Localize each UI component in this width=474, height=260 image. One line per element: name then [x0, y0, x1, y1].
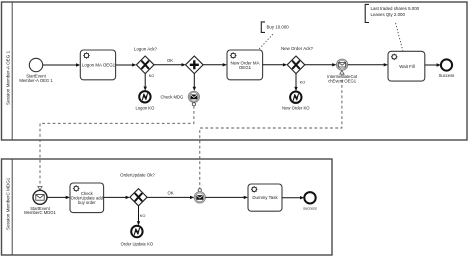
annotation Buy 10.000 [259, 22, 290, 50]
task New Order MA OEG1 [227, 50, 263, 80]
gateway XOR New Order Ack? [281, 46, 314, 74]
intermediate catch event IntermediateCatchEvent OEG1 [327, 59, 358, 83]
svg-text:OrderUpdate Ok?: OrderUpdate Ok? [120, 173, 155, 178]
svg-text:Dummy Task: Dummy Task [252, 195, 278, 200]
svg-text:KO: KO [149, 73, 155, 78]
wire sequence flow throw event to Dummy Task [205, 196, 248, 199]
svg-text:Logon MA OEG1: Logon MA OEG1 [82, 63, 116, 68]
wire sequence flow New Order task to gateway [263, 63, 288, 66]
wire sequence flow OK to parallel gateway [154, 58, 186, 66]
svg-text:Leaves Qty 2.000: Leaves Qty 2.000 [371, 12, 406, 17]
wire sequence flow start to Logon task [43, 63, 81, 66]
svg-text:KO: KO [300, 80, 306, 85]
wire sequence flow KO down to New Order KO [294, 74, 297, 92]
wire sequence flow parallel gateway down to Check MDG [193, 74, 196, 91]
svg-text:OK: OK [167, 191, 173, 196]
svg-text:New Order Ack?: New Order Ack? [281, 46, 314, 51]
svg-text:Logon Ack?: Logon Ack? [134, 46, 158, 51]
intermediate throw event Check MDG [160, 91, 199, 102]
task Logon MA OEG1 [80, 50, 115, 80]
wire sequence flow task to gateway OrderUpdate [104, 196, 130, 199]
intermediate throw event message MDG1 [194, 192, 205, 203]
message flow throw MDG1 to IntermediateCatchEvent (dashed) [198, 71, 344, 192]
svg-text:chEvent OEG1: chEvent OEG1 [328, 78, 357, 83]
pool Session Member-A OEG 1 [2, 2, 468, 140]
svg-text:New Order KO: New Order KO [282, 105, 310, 110]
start event StartEvent MemberC MDG1 (message) [24, 190, 56, 215]
gateway parallel (plus) [186, 56, 204, 74]
wire sequence flow Wait Fill to Success [425, 63, 441, 66]
annotation Last traded shares [365, 4, 419, 50]
svg-text:buy order: buy order [78, 200, 96, 205]
wire sequence flow Dummy Task to success [282, 196, 304, 199]
svg-text:Session MemberC MDG1: Session MemberC MDG1 [6, 177, 11, 230]
end event Success [439, 59, 455, 78]
end event error New Order KO [282, 92, 310, 111]
task Dummy Task [248, 184, 282, 211]
wire sequence flow OK to message throw event [147, 191, 194, 200]
svg-text:MemberC MDG1: MemberC MDG1 [24, 210, 56, 215]
end event error Order Update KO [121, 226, 154, 247]
svg-text:Wait Fill: Wait Fill [399, 64, 414, 69]
svg-text:KO: KO [140, 213, 146, 218]
wire sequence flow start to Check OrderUpdate task [47, 196, 70, 199]
start event StartEvent Member-A OEG 1 [19, 58, 53, 83]
svg-text:OEG1: OEG1 [239, 65, 252, 70]
task Check OrderUpdate add buy order [70, 183, 104, 213]
svg-text:Session Member-A OEG 1: Session Member-A OEG 1 [6, 50, 11, 105]
gateway XOR OrderUpdate Ok? [120, 173, 155, 206]
svg-text:Order Update KO: Order Update KO [121, 242, 154, 247]
svg-text:Member-A OEG 1: Member-A OEG 1 [19, 78, 53, 83]
wire sequence flow KO down to Logon KO [144, 74, 147, 91]
svg-text:Check MDG: Check MDG [160, 94, 183, 99]
gateway XOR Logon Ack? [134, 46, 158, 73]
svg-text:OK: OK [167, 58, 173, 63]
svg-text:Success: Success [439, 73, 455, 78]
wire sequence flow KO down to Order Update KO [137, 206, 140, 226]
task Wait Fill [388, 51, 425, 81]
svg-text:Last traded shares 5.000: Last traded shares 5.000 [371, 6, 420, 11]
pool Session MemberC MDG1 [2, 159, 333, 255]
svg-text:Buy 10.000: Buy 10.000 [267, 25, 290, 30]
end event error Logon KO [135, 91, 155, 110]
wire sequence flow Logon task to gateway [116, 63, 137, 66]
wire sequence flow gateway to IntermediateCatchEvent [305, 63, 337, 66]
wire sequence flow catch event to Wait Fill [348, 63, 388, 66]
end event success [303, 192, 317, 210]
wire sequence flow parallel gateway to New Order task [203, 63, 227, 66]
svg-text:Logon KO: Logon KO [135, 105, 155, 110]
svg-text:success: success [303, 206, 317, 210]
message flow Check MDG to StartEvent MemberC (dashed) [38, 103, 196, 190]
